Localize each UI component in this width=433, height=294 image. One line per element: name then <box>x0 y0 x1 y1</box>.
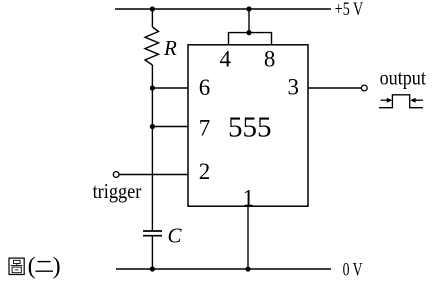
svg-text:0 V: 0 V <box>343 260 363 281</box>
svg-text:): ) <box>53 254 61 280</box>
svg-text:C: C <box>168 224 183 248</box>
svg-text:output: output <box>380 66 426 90</box>
svg-text:8: 8 <box>264 46 276 71</box>
svg-text:2: 2 <box>199 159 211 184</box>
svg-text:1: 1 <box>242 186 254 211</box>
svg-text:7: 7 <box>199 116 211 141</box>
svg-text:555: 555 <box>228 111 272 143</box>
svg-text:6: 6 <box>199 75 211 100</box>
svg-text:trigger: trigger <box>93 179 142 203</box>
svg-text:R: R <box>163 36 177 60</box>
svg-text:3: 3 <box>287 75 299 100</box>
svg-text:+5 V: +5 V <box>335 0 364 20</box>
svg-text:(: ( <box>28 254 36 280</box>
svg-text:4: 4 <box>219 46 231 71</box>
